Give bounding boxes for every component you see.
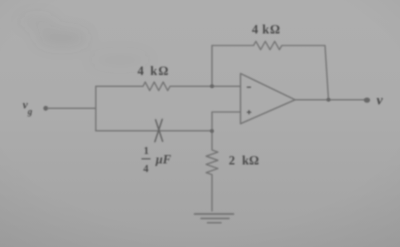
- svg-text:g: g: [27, 107, 33, 117]
- svg-text:2: 2: [229, 154, 235, 168]
- svg-text:kΩ: kΩ: [242, 154, 259, 168]
- svg-text:4: 4: [252, 23, 259, 37]
- svg-text:v: v: [377, 93, 384, 108]
- svg-text:4: 4: [138, 64, 145, 78]
- svg-text:kΩ: kΩ: [150, 64, 169, 78]
- svg-text:4: 4: [143, 164, 149, 175]
- svg-text:kΩ: kΩ: [262, 23, 281, 37]
- svg-text:μF: μF: [155, 152, 172, 166]
- svg-text:1: 1: [144, 146, 149, 157]
